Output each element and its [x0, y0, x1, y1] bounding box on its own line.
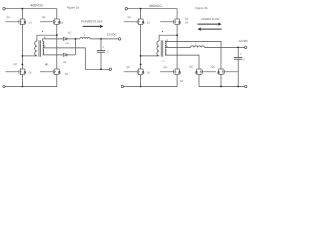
phase dot primary (right) — [162, 31, 163, 32]
input terminal + (top left) — [3, 8, 5, 10]
wire primary top lead — [37, 35, 57, 41]
svg-text:T1: T1 — [162, 60, 165, 63]
svg-text:400VDC: 400VDC — [149, 4, 162, 8]
capacitor C lead top — [100, 39, 102, 51]
wire center tap / output rail with inductor (right) — [165, 46, 191, 48]
svg-text:Q5: Q5 — [190, 66, 194, 69]
svg-text:12VDC: 12VDC — [238, 39, 249, 43]
transistor Q4 — [40, 69, 60, 75]
junction dot Q6 source — [220, 86, 222, 88]
transformer T1 secondary winding upper — [43, 41, 44, 48]
junction dot node B / primary top — [56, 34, 58, 36]
capacitor C plates (right) — [234, 57, 242, 59]
svg-text:D5: D5 — [68, 32, 72, 35]
capacitor C lead bottom (right) — [237, 59, 239, 86]
phase dot secondary lower (right) — [167, 46, 168, 47]
wire secondary bottom tap to D6 — [43, 54, 64, 56]
svg-text:Q2: Q2 — [14, 63, 18, 66]
wire D6 cathode to bus — [67, 54, 76, 56]
svg-text:C: C — [243, 58, 245, 61]
wire Q1 drain (right) — [140, 9, 142, 19]
input terminal - (bottom left) — [3, 85, 5, 87]
svg-text:D2: D2 — [29, 71, 33, 74]
transformer T2 primary winding — [157, 41, 159, 56]
wire Q5 source to output bottom rail — [198, 75, 200, 87]
junction dot node A / primary bottom (right) — [140, 55, 142, 57]
transistor Q1 — [6, 19, 26, 25]
svg-text:Q4: Q4 — [45, 63, 49, 66]
svg-text:L: L — [195, 43, 197, 46]
phase dot secondary upper — [44, 37, 45, 38]
diode D5 — [63, 37, 67, 40]
svg-text:Q4: Q4 — [164, 66, 168, 69]
node dot on rail at Q1 drain (right) — [140, 8, 142, 10]
svg-text:Q6: Q6 — [212, 66, 216, 69]
wire Q6 source to rail — [220, 75, 222, 87]
transistor Q2 (right) — [124, 69, 144, 75]
phase dot secondary upper (right) — [167, 40, 168, 41]
wire primary top lead (right) — [159, 35, 177, 41]
inductor L — [80, 37, 90, 38]
wire node A vertical (Q1 source to Q2 drain) — [21, 24, 23, 69]
junction dot output rail / C top (right) — [237, 47, 239, 49]
output terminal - (right) — [245, 85, 247, 87]
phase dot primary — [42, 31, 43, 32]
wire output bottom rail — [199, 86, 245, 88]
svg-text:D2: D2 — [147, 71, 151, 74]
svg-text:D1: D1 — [147, 21, 151, 24]
svg-text:D4: D4 — [65, 73, 69, 76]
wire top rail — [5, 9, 57, 19]
svg-text:POWER FLOW: POWER FLOW — [201, 18, 220, 21]
junction dot node A lower (right) — [140, 64, 142, 66]
transformer T2 secondary lower — [165, 49, 166, 55]
svg-text:D6: D6 — [63, 61, 67, 64]
inductor L (right) — [191, 46, 205, 48]
wire output rail to terminal — [90, 38, 118, 40]
svg-text:D1: D1 — [29, 21, 33, 24]
wire primary bottom lead — [22, 55, 37, 57]
wire bottom rail (right primary) — [124, 75, 178, 87]
node dot on top rail at Q1 drain — [22, 8, 24, 10]
svg-text:Q2: Q2 — [127, 66, 131, 69]
arrow power flow right — [83, 25, 101, 27]
svg-text:Figure 2a: Figure 2a — [67, 6, 80, 10]
transistor Q1 (right) — [124, 19, 144, 25]
svg-text:400VDC: 400VDC — [30, 4, 43, 8]
wire D5 cathode to output rail — [67, 38, 80, 40]
svg-text:L: L — [84, 34, 86, 37]
wire bottom rail — [5, 75, 57, 87]
svg-text:+: + — [103, 45, 105, 49]
svg-text:+: + — [240, 52, 242, 56]
svg-text:D3: D3 — [60, 21, 64, 24]
svg-text:D5: D5 — [66, 42, 70, 45]
input terminal + (right circuit) — [125, 8, 127, 10]
phase dot secondary lower — [44, 45, 45, 46]
wire rectifier bus vertical — [75, 39, 77, 55]
svg-text:12VDC: 12VDC — [107, 33, 118, 37]
wire node B vertical (Q3 source to Q4 drain) — [56, 24, 58, 69]
arrow power flow left (bottom) — [201, 28, 222, 30]
junction dot return / C bottom — [100, 68, 102, 70]
junction dot bottom rail (right) — [140, 86, 142, 88]
wire secondary top tap to SR2 drain — [165, 41, 221, 69]
transistor Q5 synchronous rectifier — [196, 69, 216, 75]
svg-text:D3: D3 — [185, 21, 189, 24]
junction dot node B / primary top (right) — [176, 34, 178, 36]
junction dot C bottom (right) — [237, 86, 239, 88]
capacitor C plates — [97, 50, 105, 52]
transistor Q6 synchronous rectifier — [218, 69, 238, 75]
capacitor C lead top (right) — [237, 47, 239, 57]
arrow power flow right (top) — [198, 23, 219, 25]
junction dot node A lower — [22, 64, 24, 66]
transformer T2 secondary upper — [165, 41, 166, 48]
transistor Q3 — [40, 19, 60, 25]
wire top rail (right) — [128, 9, 178, 19]
svg-text:C: C — [107, 51, 109, 54]
wire output rail to terminal (right) — [205, 46, 245, 48]
svg-text:D4: D4 — [180, 80, 184, 83]
transistor Q2 — [6, 69, 26, 75]
transformer T1 primary winding — [35, 41, 37, 56]
output terminal + — [118, 38, 120, 40]
wire secondary top tap to D5 — [43, 39, 64, 41]
wire center tap return — [43, 48, 109, 69]
wire Q2 source to bottom rail (right) — [140, 75, 142, 87]
svg-text:Q3: Q3 — [42, 16, 46, 19]
transformer T1 secondary winding lower — [43, 49, 44, 55]
svg-text:Q1: Q1 — [128, 16, 132, 19]
junction dot output rail / C top — [100, 38, 102, 40]
capacitor C lead bottom — [100, 52, 102, 69]
junction dot rectifier bus top — [75, 38, 77, 40]
transformer T2 core — [160, 40, 162, 56]
svg-text:Q1: Q1 — [7, 16, 11, 19]
output terminal + (right) — [245, 46, 247, 48]
wire secondary bottom tap to SR1 drain — [165, 55, 199, 69]
svg-text:POWER FLOW: POWER FLOW — [81, 19, 104, 23]
wire node B vertical (right) — [176, 24, 178, 69]
svg-text:Figure 2b: Figure 2b — [195, 6, 208, 10]
wire Q2 source to bottom rail — [21, 75, 23, 87]
output terminal - — [109, 68, 111, 70]
junction dot bottom rail — [22, 86, 24, 88]
wire primary bottom lead (right) — [141, 55, 160, 57]
wire Q1 drain — [21, 9, 23, 19]
diode D6 — [63, 53, 67, 56]
input terminal - (right circuit) — [121, 85, 123, 87]
junction dot node A / primary bottom — [22, 55, 24, 57]
transistor Q3 (right) — [160, 19, 180, 25]
transistor Q4 (right) — [160, 69, 180, 75]
transformer T1 core — [38, 40, 40, 56]
svg-text:Q3: Q3 — [185, 17, 189, 20]
wire node A vertical (right) — [140, 24, 142, 69]
